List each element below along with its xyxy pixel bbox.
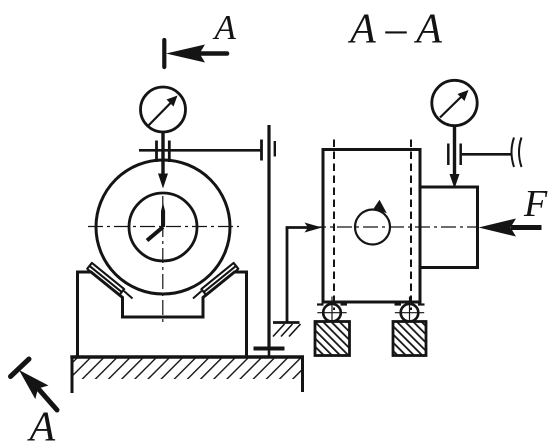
svg-text:A: A: [27, 405, 56, 444]
svg-text:A – A: A – A: [347, 7, 442, 53]
svg-text:F: F: [523, 183, 548, 225]
svg-text:A: A: [213, 8, 237, 47]
